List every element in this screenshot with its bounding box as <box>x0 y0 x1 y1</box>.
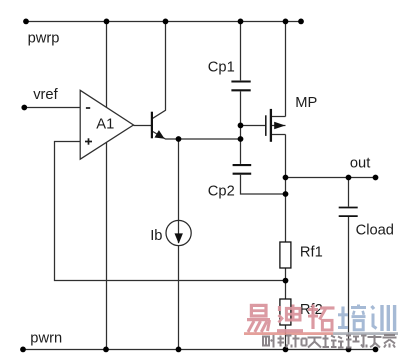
svg-text:Rf1: Rf1 <box>300 245 323 261</box>
svg-text:vref: vref <box>33 87 58 103</box>
svg-text:Cload: Cload <box>356 222 394 238</box>
svg-text:out: out <box>350 156 370 172</box>
svg-text:pwrp: pwrp <box>28 31 60 47</box>
svg-text:Cp2: Cp2 <box>208 183 235 199</box>
svg-text:A1: A1 <box>96 117 114 133</box>
svg-text:Ib: Ib <box>150 228 162 244</box>
svg-text:pwrn: pwrn <box>30 331 62 347</box>
svg-text:MP: MP <box>295 95 317 111</box>
svg-text:Cp1: Cp1 <box>208 60 235 76</box>
